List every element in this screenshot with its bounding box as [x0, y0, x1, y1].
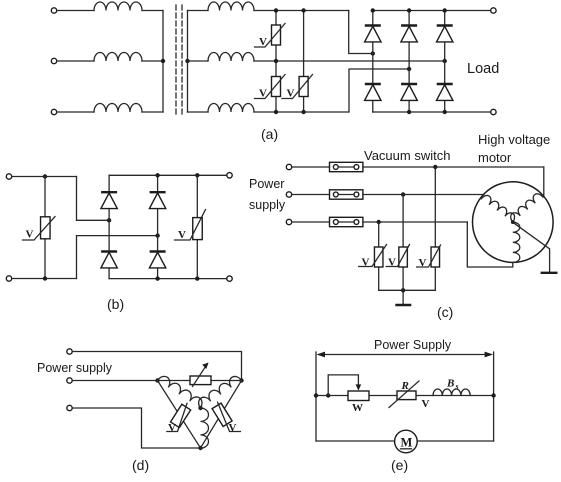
svg-text:supply: supply: [249, 198, 286, 212]
inductor Bs: [433, 389, 470, 395]
motor winding W3: [513, 222, 520, 262]
svg-text:M: M: [401, 436, 413, 450]
varistor V6: [374, 247, 383, 267]
wire phase2 d: [72, 380, 157, 382]
diode D4: [365, 84, 381, 100]
junction: [433, 165, 437, 169]
label V6: [362, 257, 370, 269]
label V10: [168, 422, 176, 434]
label (d): [132, 457, 149, 473]
junction: [43, 174, 47, 178]
wire ground stem: [402, 290, 404, 304]
varistor V6 mark: [359, 245, 387, 267]
wire phase B: [363, 194, 484, 196]
diode D10: [149, 252, 165, 268]
wire phase3 d: [72, 408, 200, 448]
wire dc+ rail b: [109, 174, 229, 176]
motor winding W2: [508, 192, 543, 223]
varistor V10 mark: [167, 403, 187, 431]
junction: [443, 59, 447, 63]
wire: [467, 222, 513, 267]
junction: [377, 220, 381, 224]
wire: [378, 222, 380, 290]
junction: [274, 8, 278, 12]
label V4: [26, 229, 34, 241]
diode D5: [401, 84, 417, 100]
varistor V9 mark: [193, 363, 209, 387]
svg-text:(b): (b): [107, 296, 124, 312]
wire: [142, 60, 163, 62]
svg-text:(a): (a): [261, 126, 278, 142]
terminal load+: [491, 8, 496, 13]
wire: [142, 111, 163, 113]
terminal b3: [227, 173, 232, 178]
wire left rail: [315, 352, 317, 441]
diode D2: [401, 26, 417, 42]
junction: [43, 276, 47, 280]
junction: [274, 110, 278, 114]
label V8: [419, 257, 427, 269]
wire varistor bus: [379, 289, 436, 291]
node center: [198, 406, 202, 410]
svg-text:V: V: [168, 422, 176, 434]
wire phase C: [363, 221, 467, 223]
svg-text:V: V: [229, 422, 237, 434]
wire: [372, 11, 374, 113]
svg-text:High voltage: High voltage: [478, 132, 550, 147]
wire dc- rail: [373, 111, 494, 113]
varistor V2 mark: [255, 75, 286, 99]
wire delta top: [158, 380, 242, 382]
svg-text:motor: motor: [478, 150, 512, 165]
svg-text:Power supply: Power supply: [37, 361, 113, 375]
svg-text:W: W: [352, 402, 363, 414]
wire: [292, 166, 330, 168]
wire: [434, 167, 436, 290]
varistor V3: [299, 77, 308, 97]
wire: [292, 221, 330, 223]
wire: [142, 10, 163, 12]
junction: [274, 59, 278, 63]
varistor V1: [272, 25, 281, 45]
label V2: [259, 88, 267, 100]
varistor V9: [190, 376, 211, 385]
wire right rail: [493, 352, 495, 441]
svg-text:(c): (c): [437, 304, 453, 320]
label V11: [229, 422, 237, 434]
wire phase2: [254, 60, 445, 62]
wire bridge right leg: [157, 175, 159, 278]
wire: [57, 60, 94, 62]
wire varistor branch: [196, 175, 198, 278]
svg-text:(d): (d): [132, 457, 149, 473]
terminal d3: [67, 405, 72, 410]
svg-text:R: R: [401, 380, 409, 392]
diode D7: [101, 192, 117, 208]
diode D1: [365, 26, 381, 42]
wire varistor V3 branch: [303, 11, 305, 113]
junction: [107, 218, 111, 222]
junction motor star point: [511, 220, 515, 224]
varistor V11 mark: [218, 402, 241, 431]
varistor V11: [212, 403, 232, 426]
junction: [407, 8, 411, 12]
svg-text:V: V: [259, 36, 267, 48]
svg-text:V: V: [388, 257, 396, 269]
varistor V4 mark: [23, 217, 56, 241]
varistor V1 mark: [255, 24, 286, 48]
wire: [188, 60, 209, 62]
varistor V5 mark: [175, 210, 206, 241]
wire varistor chain: [275, 11, 277, 113]
rheostat W: [348, 391, 369, 401]
junction: [301, 110, 305, 114]
primary winding L2: [94, 53, 142, 62]
junction: [155, 173, 159, 177]
svg-text:Power: Power: [249, 177, 284, 191]
label Vacuum switch: [364, 148, 450, 163]
label Bs: [446, 378, 459, 392]
rheostat W arrow: [328, 375, 361, 396]
label Power supply d: [37, 361, 113, 375]
label R: [401, 380, 409, 392]
primary winding L3: [94, 104, 142, 113]
wire phase1 step: [349, 11, 373, 54]
transformer core: [176, 5, 182, 117]
junction: [371, 8, 375, 12]
wire phase1: [254, 10, 349, 12]
motor winding W4: [158, 374, 205, 408]
wire delta left: [158, 381, 201, 449]
junction: [371, 51, 375, 55]
junction: [491, 393, 495, 397]
junction: [401, 288, 405, 292]
svg-text:V: V: [178, 229, 186, 241]
junction: [161, 59, 165, 63]
terminal a2: [51, 58, 56, 63]
svg-text:Load: Load: [467, 61, 499, 77]
label M: [401, 436, 413, 450]
label V7: [388, 257, 396, 269]
svg-text:V: V: [259, 88, 267, 100]
wire phase3 step: [349, 69, 409, 112]
svg-text:Power Supply: Power Supply: [374, 338, 452, 352]
diode D3: [437, 26, 453, 42]
label Load: [467, 61, 499, 77]
junction: [401, 192, 405, 196]
terminal c2: [286, 192, 291, 197]
wire: [543, 167, 545, 197]
junction: [407, 67, 411, 71]
wire dc+ rail: [373, 10, 494, 12]
label (b): [107, 296, 124, 312]
varistor V7 mark: [386, 245, 409, 267]
varistor V8 mark: [417, 245, 441, 267]
wire varistor branch: [44, 177, 46, 279]
wire phase A: [363, 166, 544, 168]
wire: [12, 176, 77, 178]
terminal a3: [51, 109, 56, 114]
primary winding L1: [94, 2, 142, 11]
junction: [195, 173, 199, 177]
label V12: [422, 398, 430, 410]
junction: [155, 276, 159, 280]
node TL: [155, 378, 159, 382]
wire main line: [316, 395, 494, 397]
dimension arrow: [317, 352, 494, 358]
label (a): [261, 126, 278, 142]
diode D8: [149, 192, 165, 208]
wire: [188, 10, 209, 12]
junction: [155, 233, 159, 237]
motor M: [395, 430, 418, 453]
varistor V8: [431, 247, 440, 267]
wire: [12, 278, 77, 280]
terminal d1: [67, 349, 72, 354]
label V5: [178, 229, 186, 241]
label (e): [391, 457, 408, 473]
secondary winding L4: [208, 2, 254, 11]
svg-text:V: V: [26, 229, 34, 241]
terminal c1: [286, 164, 291, 169]
wire: [292, 194, 330, 196]
wire secondary neutral: [187, 11, 189, 113]
label V3: [287, 88, 295, 100]
varistor V7: [399, 247, 408, 267]
varistor R: [397, 391, 416, 400]
label High voltage motor: [478, 132, 550, 165]
wire ac1 step: [77, 177, 110, 221]
vacuum switch S1: [330, 162, 363, 171]
wire: [408, 11, 410, 113]
label Power Supply e: [374, 338, 452, 352]
motor stator: [473, 182, 554, 263]
motor winding W1: [481, 193, 517, 222]
wire ac2 step: [77, 236, 158, 279]
terminal b1: [6, 174, 11, 179]
terminal a1: [51, 8, 56, 13]
wire: [188, 111, 209, 113]
wire phase1 d: [72, 352, 241, 381]
diode D6: [437, 84, 453, 100]
terminal load-: [491, 109, 496, 114]
svg-text:V: V: [287, 88, 295, 100]
node TR: [239, 378, 243, 382]
label W: [352, 402, 363, 414]
svg-text:(e): (e): [391, 457, 408, 473]
varistor V10: [171, 404, 191, 427]
motor winding W6: [201, 408, 209, 448]
wire dc- rail b: [109, 278, 229, 280]
secondary winding L6: [208, 104, 254, 113]
label Power supply: [249, 177, 286, 212]
svg-text:V: V: [362, 257, 370, 269]
svg-text:Vacuum switch: Vacuum switch: [364, 148, 450, 163]
wire primary neutral: [162, 11, 164, 113]
ground: [395, 304, 411, 306]
junction: [407, 110, 411, 114]
varistor V2: [272, 77, 281, 97]
vacuum switch S2: [330, 190, 363, 199]
wire: [402, 195, 404, 291]
svg-text:s: s: [455, 382, 459, 391]
junction: [443, 110, 447, 114]
junction: [314, 393, 318, 397]
diode D9: [101, 252, 117, 268]
label V1: [259, 36, 267, 48]
wire bridge left leg: [108, 175, 110, 278]
svg-text:V: V: [422, 398, 430, 410]
junction: [326, 393, 330, 397]
varistor R mark: [389, 381, 419, 408]
varistor V5: [193, 218, 203, 240]
svg-text:V: V: [419, 257, 427, 269]
junction: [443, 8, 447, 12]
svg-text:B: B: [446, 378, 454, 390]
terminal c3: [286, 219, 291, 224]
wire motor ground lead: [514, 223, 550, 272]
wire: [57, 111, 94, 113]
motor winding W5: [196, 374, 242, 408]
junction: [195, 276, 199, 280]
label (c): [437, 304, 453, 320]
wire bottom rail: [316, 440, 494, 442]
vacuum switch S3: [330, 217, 363, 226]
node bottom: [198, 446, 202, 450]
junction: [185, 59, 189, 63]
junction: [301, 8, 305, 12]
terminal d2: [67, 378, 72, 383]
varistor V3 mark: [282, 75, 313, 99]
terminal b2: [6, 276, 11, 281]
wire: [444, 11, 446, 113]
ground motor: [541, 272, 558, 274]
wire: [57, 10, 94, 12]
varistor V4: [41, 217, 51, 239]
wire phase3: [254, 111, 349, 113]
wire delta right: [201, 381, 242, 449]
terminal b4: [227, 276, 232, 281]
secondary winding L5: [208, 53, 254, 62]
